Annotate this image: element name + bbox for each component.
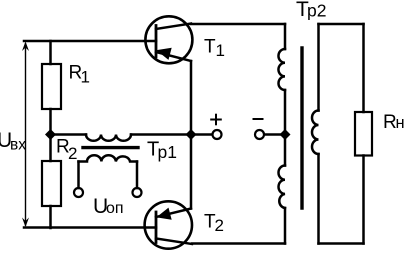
resistor R2 — [42, 161, 61, 206]
wire Tp2 secondary upper — [317, 24, 320, 111]
transformer Tp1 primary winding — [86, 135, 131, 141]
transistor T1 emitter diagonal — [156, 52, 191, 61]
svg-text:2: 2 — [215, 216, 224, 235]
svg-text:2: 2 — [68, 144, 77, 163]
svg-text:T: T — [204, 36, 216, 57]
label minus sign — [254, 118, 263, 120]
transistor T1 emitter arrow (PNP) — [158, 48, 172, 59]
wire Tp2 primary upper — [284, 24, 287, 49]
wire minus terminal to Tp2 center tap — [265, 133, 286, 136]
wire Tp2 secondary lower — [317, 154, 320, 244]
transistor T2 emitter arrow (PNP) — [158, 209, 172, 220]
svg-text:1: 1 — [216, 41, 225, 60]
transformer Tp1 secondary winding — [79, 155, 138, 161]
transistor T1 collector diagonal — [156, 24, 191, 30]
wire bottom-left (T2 base wire) — [24, 226, 156, 229]
resistor Rn — [355, 112, 372, 156]
svg-text:р1: р1 — [158, 142, 177, 162]
node junction Tp2 center tap — [280, 129, 291, 140]
wire Rn lower lead — [362, 156, 365, 244]
transformer Tp2 secondary winding — [312, 111, 319, 155]
wire bottom right loop — [319, 242, 364, 245]
svg-text:р2: р2 — [307, 1, 326, 21]
wire left rail middle — [49, 109, 52, 161]
node junction left rail middle — [45, 129, 56, 140]
wire T1 emitter vertical — [190, 61, 193, 135]
label plus sign — [211, 119, 221, 121]
wire left rail lower — [49, 206, 52, 228]
transformer Tp2 primary lower winding — [279, 166, 285, 209]
wire Rn upper lead — [362, 24, 365, 112]
transistor T2 emitter diagonal — [156, 209, 191, 218]
wire left rail upper — [49, 41, 52, 64]
transistor T1 body circle — [145, 16, 192, 63]
transformer Tp1 core — [83, 146, 138, 149]
terminal minus circle — [255, 130, 264, 139]
transformer Tp2 primary upper winding — [278, 49, 285, 90]
transistor T2 base bar — [155, 212, 158, 243]
wire junction to plus terminal — [191, 133, 212, 136]
wire Uop right lead — [136, 162, 139, 189]
wire Uop left lead — [77, 162, 80, 189]
wire bottom (T2 collector to Tp2) — [192, 242, 285, 245]
arrow Uvx input voltage — [25, 44, 27, 225]
transistor T2 collector diagonal — [156, 239, 192, 245]
terminal Uop right circle — [133, 188, 142, 197]
svg-text:н: н — [396, 114, 405, 132]
transistor T1 base bar — [155, 26, 158, 58]
svg-text:оп: оп — [106, 200, 124, 217]
svg-text:1: 1 — [81, 68, 90, 87]
svg-text:вх: вх — [10, 136, 26, 153]
node junction at plus tap — [186, 129, 197, 140]
terminal plus circle — [213, 130, 222, 139]
wire top right loop — [319, 23, 364, 26]
resistor R1 — [42, 64, 61, 109]
transformer Tp2 core — [300, 48, 303, 208]
wire T2 emitter vertical — [190, 135, 193, 209]
wire Tp2 primary lower — [284, 208, 287, 244]
wire middle right segment — [131, 133, 191, 136]
transistor T2 body circle — [145, 201, 192, 248]
terminal Uop left circle — [74, 188, 83, 197]
wire top-left (T1 base wire) — [24, 40, 156, 43]
wire middle left segment — [51, 133, 87, 136]
wire Tp2 primary middle — [284, 90, 287, 166]
wire top (T1 collector to Tp2) — [191, 23, 285, 26]
